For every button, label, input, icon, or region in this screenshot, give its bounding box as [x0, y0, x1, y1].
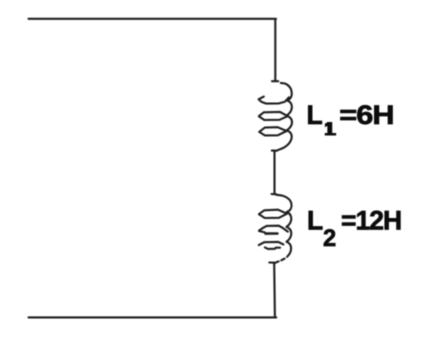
svg-text:=12H: =12H [341, 205, 401, 235]
svg-text:2: 2 [323, 226, 336, 252]
svg-text:L: L [307, 100, 323, 130]
svg-text:L: L [307, 205, 323, 235]
svg-text:=6H: =6H [339, 101, 393, 131]
